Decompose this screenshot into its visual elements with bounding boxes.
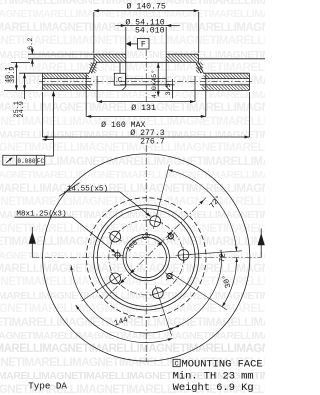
wire: disc OD left edge bbox=[42, 73, 44, 90]
svg-text:Weight 6.9 Kg: Weight 6.9 Kg bbox=[173, 382, 254, 394]
dimension Ø140.75 line bbox=[94, 10, 199, 12]
svg-text:MAGNETIMARELLIMAGNETIMARELLIMA: MAGNETIMARELLIMAGNETIMARELLIMAGNETIMAREL… bbox=[0, 62, 265, 74]
svg-text:MAGNETIMARELLIMAGNETIMARELLIMA: MAGNETIMARELLIMAGNETIMARELLIMAGNETIMAREL… bbox=[0, 223, 265, 235]
svg-text:F: F bbox=[141, 41, 146, 50]
bolt hole 1 Ø14.55 bbox=[178, 250, 189, 261]
wire: band bottom surface + extension line bbox=[4, 89, 250, 91]
section hatching right band bottom plate bbox=[200, 89, 202, 91]
svg-text:24.9: 24.9 bbox=[18, 101, 26, 117]
svg-text:Ø 131: Ø 131 bbox=[131, 103, 156, 113]
wire: band top surface bbox=[43, 72, 90, 74]
datum C leader bbox=[119, 62, 121, 73]
angle dimension 144 deg arc bottom bbox=[71, 265, 174, 333]
section hatching right flange bbox=[166, 59, 169, 62]
circle bore Ø54 bbox=[126, 237, 166, 277]
circle Ø131 bbox=[97, 209, 195, 307]
leader stub upper-left bbox=[59, 183, 80, 197]
wire: hat wall right bbox=[199, 62, 204, 73]
svg-text:MAGNETIMARELLIMAGNETIMARELLIMA: MAGNETIMARELLIMAGNETIMARELLIMAGNETIMAREL… bbox=[0, 290, 265, 302]
wire: 6.2 reference line right bbox=[199, 58, 266, 60]
diagonal centerline 45deg bbox=[104, 197, 207, 300]
svg-text:MOUNTING FACE: MOUNTING FACE bbox=[182, 358, 263, 370]
wire: bore chamfer right bbox=[166, 87, 170, 91]
wire: disc OD right edge bbox=[249, 73, 251, 90]
dimension 40.1/39.9 line bbox=[15, 62, 17, 90]
radial line to top hole bbox=[157, 164, 170, 214]
svg-text:MAGNETIMARELLIMAGNETIMARELLIMA: MAGNETIMARELLIMAGNETIMARELLIMAGNETIMAREL… bbox=[0, 343, 265, 355]
threaded hole M8 #3 bbox=[167, 273, 172, 278]
datum F leader bbox=[131, 43, 138, 45]
wire: flange left edge bbox=[93, 54, 95, 62]
section hatching left hat wall bbox=[90, 70, 93, 73]
threaded hole M8 #2 bbox=[115, 253, 120, 258]
feature control frame leader bbox=[53, 93, 55, 157]
svg-text:MAGNETIMARELLIMAGNETIMARELLIMA: MAGNETIMARELLIMAGNETIMARELLIMAGNETIMAREL… bbox=[0, 142, 265, 154]
angle dimension arc bottom-left bbox=[76, 305, 173, 342]
dimension 25.1/24.9 line bbox=[24, 73, 26, 99]
svg-text:Ø 277.3: Ø 277.3 bbox=[130, 128, 164, 138]
dimension line inner vertical bbox=[157, 63, 159, 97]
svg-text:MAGNETIMARELLIMAGNETIMARELLIMA: MAGNETIMARELLIMAGNETIMARELLIMAGNETIMAREL… bbox=[0, 35, 265, 47]
wire: bore right edge bbox=[165, 54, 167, 86]
svg-text:MAGNETIMARELLIMAGNETIMARELLIMA: MAGNETIMARELLIMAGNETIMARELLIMAGNETIMAREL… bbox=[0, 49, 265, 61]
svg-text:72°: 72° bbox=[218, 248, 228, 263]
radial line lower-left hole bbox=[82, 282, 110, 301]
svg-text:MAGNETIMARELLIMAGNETIMARELLIMA: MAGNETIMARELLIMAGNETIMARELLIMAGNETIMAREL… bbox=[0, 263, 265, 275]
svg-text:276.7: 276.7 bbox=[140, 138, 165, 147]
datum F box bbox=[138, 39, 150, 50]
circle Ø160 dashed bbox=[86, 198, 206, 318]
dimension Ø131 bbox=[96, 76, 98, 102]
svg-text:MAGNETIMARELLIMAGNETIMARELLIMA: MAGNETIMARELLIMAGNETIMARELLIMAGNETIMAREL… bbox=[0, 317, 265, 329]
wire: vent lower line bbox=[43, 84, 93, 86]
wire: hat wall left bbox=[89, 62, 94, 73]
dimension Ø277.3/276.7 bbox=[42, 92, 44, 137]
svg-text:0.080: 0.080 bbox=[17, 158, 35, 165]
radial line to right hole bbox=[190, 251, 242, 255]
radial line to bottom hole bbox=[160, 299, 172, 335]
dimension 6.2 lines bbox=[31, 48, 33, 55]
section cut arrow left bbox=[31, 227, 33, 258]
svg-text:Type DA: Type DA bbox=[28, 380, 67, 391]
wire: hub top face bbox=[94, 53, 126, 55]
svg-text:Ø 140.75: Ø 140.75 bbox=[127, 2, 166, 12]
svg-text:FC: FC bbox=[37, 158, 45, 165]
angle dimension 72 deg arc right bbox=[175, 252, 222, 327]
section hatching left band bottom plate bbox=[43, 87, 46, 90]
threaded hole M8 #1 bbox=[168, 234, 173, 239]
svg-text:Min. TH 23 mm: Min. TH 23 mm bbox=[173, 371, 254, 383]
datum C reference box (mounting face note) bbox=[173, 359, 180, 366]
svg-text:MAGNETIMARELLIMAGNETIMARELLIMA: MAGNETIMARELLIMAGNETIMARELLIMAGNETIMAREL… bbox=[0, 183, 265, 195]
horizontal centerline / cutting plane bbox=[32, 257, 261, 259]
circle bolt PCD Ø100 centerline bbox=[109, 220, 184, 295]
svg-text:MAGNETIMARELLIMAGNETIMARELLIMA: MAGNETIMARELLIMAGNETIMARELLIMAGNETIMAREL… bbox=[0, 169, 265, 181]
arrowhead on diagonal outer end bbox=[199, 200, 203, 204]
svg-text:C: C bbox=[175, 361, 179, 368]
section hatching left flange bbox=[94, 59, 97, 62]
circle disc OD Ø277 bbox=[43, 154, 250, 361]
bolt hole 5 Ø14.55 bbox=[152, 288, 163, 299]
dimension Ø160 MAX bbox=[85, 75, 87, 117]
section cut arrow right bbox=[260, 229, 262, 258]
wire: bore left edge bbox=[125, 54, 127, 86]
section hatching left band top plate bbox=[43, 75, 46, 78]
bolt hole 4 Ø14.55 bbox=[110, 273, 121, 284]
dimension Ø54.11 line bbox=[115, 25, 180, 27]
svg-text:54.010: 54.010 bbox=[135, 27, 165, 36]
svg-text:6.2: 6.2 bbox=[27, 38, 35, 50]
dimension line inner vertical 2 bbox=[172, 79, 174, 99]
wire: mounting face C bbox=[96, 61, 196, 63]
angle dimension 72 deg arc upper right bbox=[168, 170, 236, 252]
section hatching right hat wall bbox=[196, 70, 199, 73]
angle dimension 30 deg arc bbox=[222, 258, 237, 307]
wire: vent centerline bbox=[39, 81, 252, 83]
vertical centerline bbox=[145, 145, 147, 362]
bolt hole 3 Ø14.55 bbox=[110, 231, 121, 242]
bolt hole 2 Ø14.55 bbox=[150, 216, 161, 227]
section hatching right band top plate bbox=[203, 75, 206, 78]
wire: vent upper line bbox=[43, 78, 92, 80]
front view of disc bbox=[3, 91, 265, 362]
svg-text:C: C bbox=[118, 77, 123, 85]
feature control frame runout 0.080 FC bbox=[3, 155, 45, 165]
svg-text:3.5: 3.5 bbox=[165, 83, 173, 95]
wire: 6.2 reference lines left bbox=[28, 53, 94, 55]
circle Ø140.75 bbox=[94, 205, 199, 310]
section view of vented brake disc bbox=[4, 2, 265, 147]
circle Ø62 bbox=[123, 234, 169, 280]
wire: section centerline bbox=[145, 50, 147, 103]
radial line M8 lower right bbox=[171, 273, 227, 310]
wire: flange right edge bbox=[198, 54, 200, 62]
wire: bore chamfer left bbox=[122, 87, 126, 91]
datum C box (section) bbox=[114, 73, 125, 85]
